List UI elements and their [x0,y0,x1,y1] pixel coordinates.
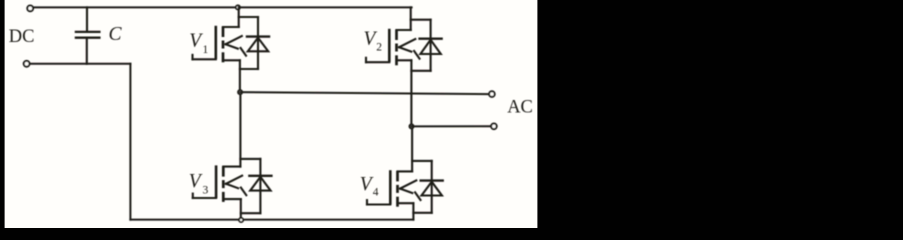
node: V3 source on bottom rail [239,218,243,222]
node: V1 source / V3 drain junction [238,90,242,94]
svg-text:V: V [189,171,203,192]
node: V1 drain on top rail [236,5,240,9]
AC terminal 2 [491,124,497,130]
AC terminal 1 [489,91,495,97]
wire left leg down [129,64,131,220]
wire lower DC rail [31,63,131,65]
DC input terminal - [24,61,30,67]
freewheeling diode of V4 [412,161,443,213]
freewheeling diode of V2 [411,20,442,71]
transistor V3 [193,92,247,220]
svg-text:V: V [189,31,203,52]
transistor V2 [366,7,420,126]
wire bottom rail [130,219,413,221]
wire top DC rail [34,6,411,8]
svg-text:2: 2 [376,41,382,53]
svg-text:V: V [360,174,374,195]
svg-text:4: 4 [373,187,379,199]
freewheeling diode of V3 [240,159,271,213]
wire AC output line 1 [240,92,489,94]
wire AC output line 2 [412,125,491,127]
capacitor C [76,7,100,63]
freewheeling diode of V1 [239,17,269,69]
svg-text:DC: DC [9,27,35,47]
svg-text:C: C [109,24,123,45]
node: V2 source / V4 drain junction [409,124,413,128]
transistor V4 [367,126,421,219]
svg-text:1: 1 [203,44,209,56]
white schematic sheet [5,0,538,228]
svg-text:AC: AC [507,98,533,118]
svg-text:3: 3 [203,184,209,196]
DC input terminal + [27,5,33,11]
transistor V1 [193,7,247,92]
